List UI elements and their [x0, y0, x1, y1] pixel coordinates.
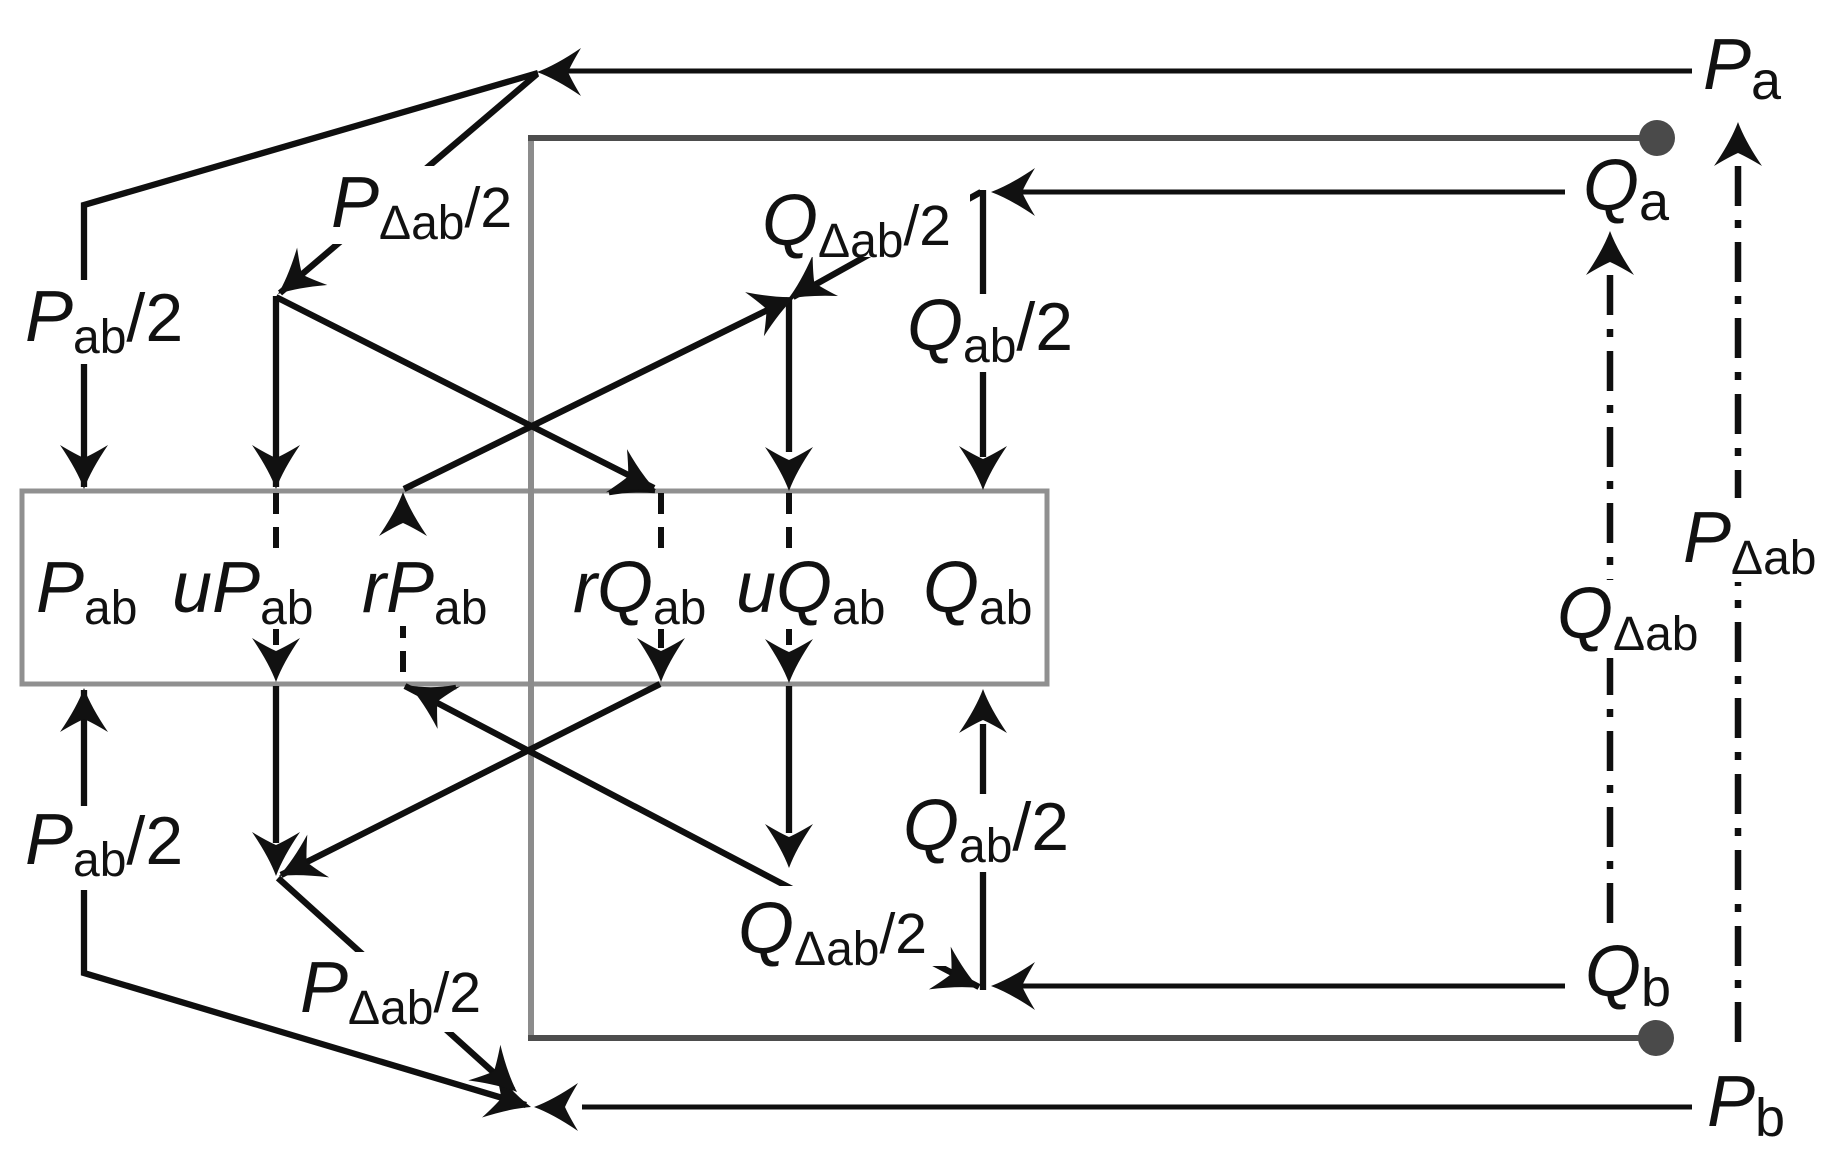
arrowhead rPab up inside box	[379, 492, 427, 536]
wire QΔab dash-dot vertical	[1607, 275, 1614, 928]
arrowhead diag into uP lower junction	[268, 835, 329, 898]
wire uPab dashed in box	[273, 493, 279, 645]
arrowhead uPab lower vertical down	[252, 832, 300, 876]
outer region bottom edge	[528, 1035, 1655, 1041]
arrowhead Qab/2 top into box	[959, 446, 1007, 490]
wire Pab/2 lower vertical and lower-left diagonal to Pb node	[84, 690, 526, 1105]
arrowhead QΔab/2 top into uQ junction	[775, 255, 838, 319]
arrowhead QΔab/2 into rPab bottom	[399, 666, 460, 729]
label rQab in box	[572, 548, 722, 635]
hop arc at rQab top	[609, 490, 655, 493]
label rPab in box	[360, 548, 500, 635]
wire rQab dashed in box	[658, 493, 664, 648]
wire Qab/2 top vertical	[980, 190, 986, 457]
arrowhead QΔab/2 into Qb node	[929, 947, 990, 1010]
label Qab/2 top	[900, 286, 1077, 373]
arrowhead uQ junction vertical down	[765, 447, 813, 491]
wire diagonal rQab bottom to uP lower junction	[281, 684, 660, 875]
node dot bottom right	[1638, 1020, 1674, 1056]
arrowhead into Pa node	[537, 48, 581, 96]
wire uQab junction vertical	[786, 299, 792, 452]
arrowhead Pab/2 lower up into box	[60, 688, 108, 732]
wire Qab/2 bottom vertical	[980, 724, 986, 990]
label PΔab/2 bottom	[295, 948, 491, 1035]
inner transformer box	[22, 491, 1047, 684]
wire uPab top vertical	[273, 296, 279, 487]
arrowhead Qab/2 bottom up into box	[959, 689, 1007, 733]
wire Qb horizontal	[1000, 984, 1565, 989]
wire uPab below box	[273, 686, 279, 843]
wire rPab dashed in box	[400, 617, 406, 682]
node dot top right	[1639, 120, 1675, 156]
arrowhead lower diag into Pb node	[482, 1071, 538, 1130]
label Pab/2 lower left	[20, 800, 185, 890]
arrowhead uPab into box top	[252, 445, 300, 489]
wire PΔab/2 bottom diagonal	[278, 878, 513, 1090]
hop arc at rPab bottom	[405, 687, 456, 690]
arrowhead PΔab up	[1714, 122, 1762, 166]
label QΔab/2 bottom	[736, 886, 946, 976]
label QΔab	[1550, 574, 1708, 661]
outer region top edge	[528, 135, 1655, 141]
label uPab in box	[172, 548, 324, 635]
wire Pa to left corner diagonal and Pab/2 upper vertical	[84, 73, 538, 487]
wire diagonal uP junction to rQab	[276, 297, 654, 488]
wire Pa horizontal	[560, 69, 1692, 74]
outer region left edge	[528, 136, 534, 1040]
wire PΔab dash-dot vertical	[1735, 166, 1742, 1043]
label Qab/2 bottom	[896, 786, 1074, 873]
wire uQab dashed in box	[786, 493, 792, 645]
arrowhead Pb into node	[534, 1083, 578, 1131]
label QΔab/2 top	[756, 175, 970, 268]
arrowhead Pab/2 upper into box	[60, 445, 108, 489]
arrowhead PΔab/2 bottom into Pb node	[468, 1045, 533, 1110]
arrowhead rQab dashed down	[637, 638, 685, 682]
arrowhead rPab diag into uQ junction	[745, 275, 804, 336]
wire uQab below box	[786, 686, 792, 833]
arrowhead uQab below box down	[765, 824, 813, 868]
wire PΔab/2 top diagonal	[280, 74, 537, 293]
label PΔab	[1675, 498, 1820, 585]
label Pab/2 upper left	[20, 277, 185, 364]
wire Pb horizontal	[582, 1105, 1692, 1110]
arrowhead PΔab/2 top into uP junction	[263, 248, 327, 313]
label uQab in box	[735, 548, 890, 635]
arrowhead into rQab box top	[606, 449, 667, 511]
arrowhead QΔab up	[1586, 231, 1634, 275]
wire diagonal rPab top to uQ junction	[404, 300, 788, 489]
wire QΔab/2 top diagonal	[793, 192, 981, 297]
arrowhead Qb into node	[991, 962, 1035, 1010]
wire QΔab/2 bottom diagonal	[405, 686, 979, 987]
arrowhead uPab dashed down in box	[252, 638, 300, 682]
arrowhead uQab dashed down in box	[765, 639, 813, 683]
arrowhead Qa into node	[991, 168, 1035, 216]
wire Qa horizontal	[1000, 190, 1565, 195]
label PΔab/2 top	[326, 163, 518, 250]
